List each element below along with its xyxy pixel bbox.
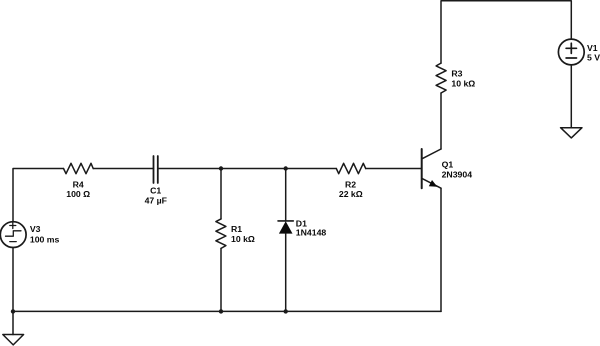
svg-text:Q1: Q1 (442, 160, 454, 170)
svg-text:C1: C1 (150, 186, 161, 196)
ground at V3 (3, 335, 24, 345)
svg-text:100 ms: 100 ms (30, 234, 60, 244)
svg-text:V3: V3 (30, 224, 41, 234)
wire junction to D1 (285, 169, 287, 221)
resistor R1 (216, 219, 226, 249)
wire V1 to ground (570, 65, 572, 128)
svg-text:10 kΩ: 10 kΩ (451, 79, 475, 89)
svg-text:R4: R4 (73, 179, 84, 189)
wire bottom rail (13, 310, 441, 312)
wire D1 to bottom rail (285, 234, 287, 312)
resistor R2 (336, 163, 365, 173)
wire junction to R1 (220, 169, 222, 219)
svg-text:2N3904: 2N3904 (442, 169, 473, 179)
svg-text:22 kΩ: 22 kΩ (339, 189, 363, 199)
node junction at R1 bottom (219, 309, 223, 313)
resistor R4 (64, 163, 94, 173)
node junction at R1 top (219, 166, 223, 170)
wire to ground (12, 311, 14, 334)
diode D1 (278, 221, 293, 234)
wire V3 to bottom rail (12, 248, 14, 312)
wire R2 to Q1 base (366, 168, 422, 170)
node junction at D1 bottom (284, 309, 288, 313)
wire R3 top rail to V1 (441, 1, 571, 63)
svg-text:5 V: 5 V (587, 52, 600, 62)
capacitor C1 (154, 156, 158, 183)
wire Q1 emitter to bottom rail (440, 188, 442, 311)
svg-text:100 Ω: 100 Ω (66, 189, 90, 199)
wire V3 top lead to node A corner to R4 (13, 169, 64, 222)
svg-text:1N4148: 1N4148 (296, 228, 327, 238)
node junction at D1 top (284, 166, 288, 170)
resistor R3 (436, 63, 446, 93)
svg-text:10 kΩ: 10 kΩ (231, 234, 255, 244)
svg-text:R3: R3 (451, 69, 462, 79)
svg-text:R1: R1 (231, 224, 242, 234)
wire C1 to R2 (158, 168, 336, 170)
voltage source V3 (0, 222, 26, 248)
transistor Q1 (422, 149, 441, 188)
node junction at V3 bottom (11, 309, 15, 313)
wire R4 to C1 (93, 168, 153, 170)
voltage source V1 (558, 39, 584, 65)
ground under V1 (561, 128, 582, 138)
wire R1 to bottom rail (220, 248, 222, 311)
svg-text:47 µF: 47 µF (145, 195, 167, 205)
wire Q1 collector to R3 (440, 93, 442, 149)
